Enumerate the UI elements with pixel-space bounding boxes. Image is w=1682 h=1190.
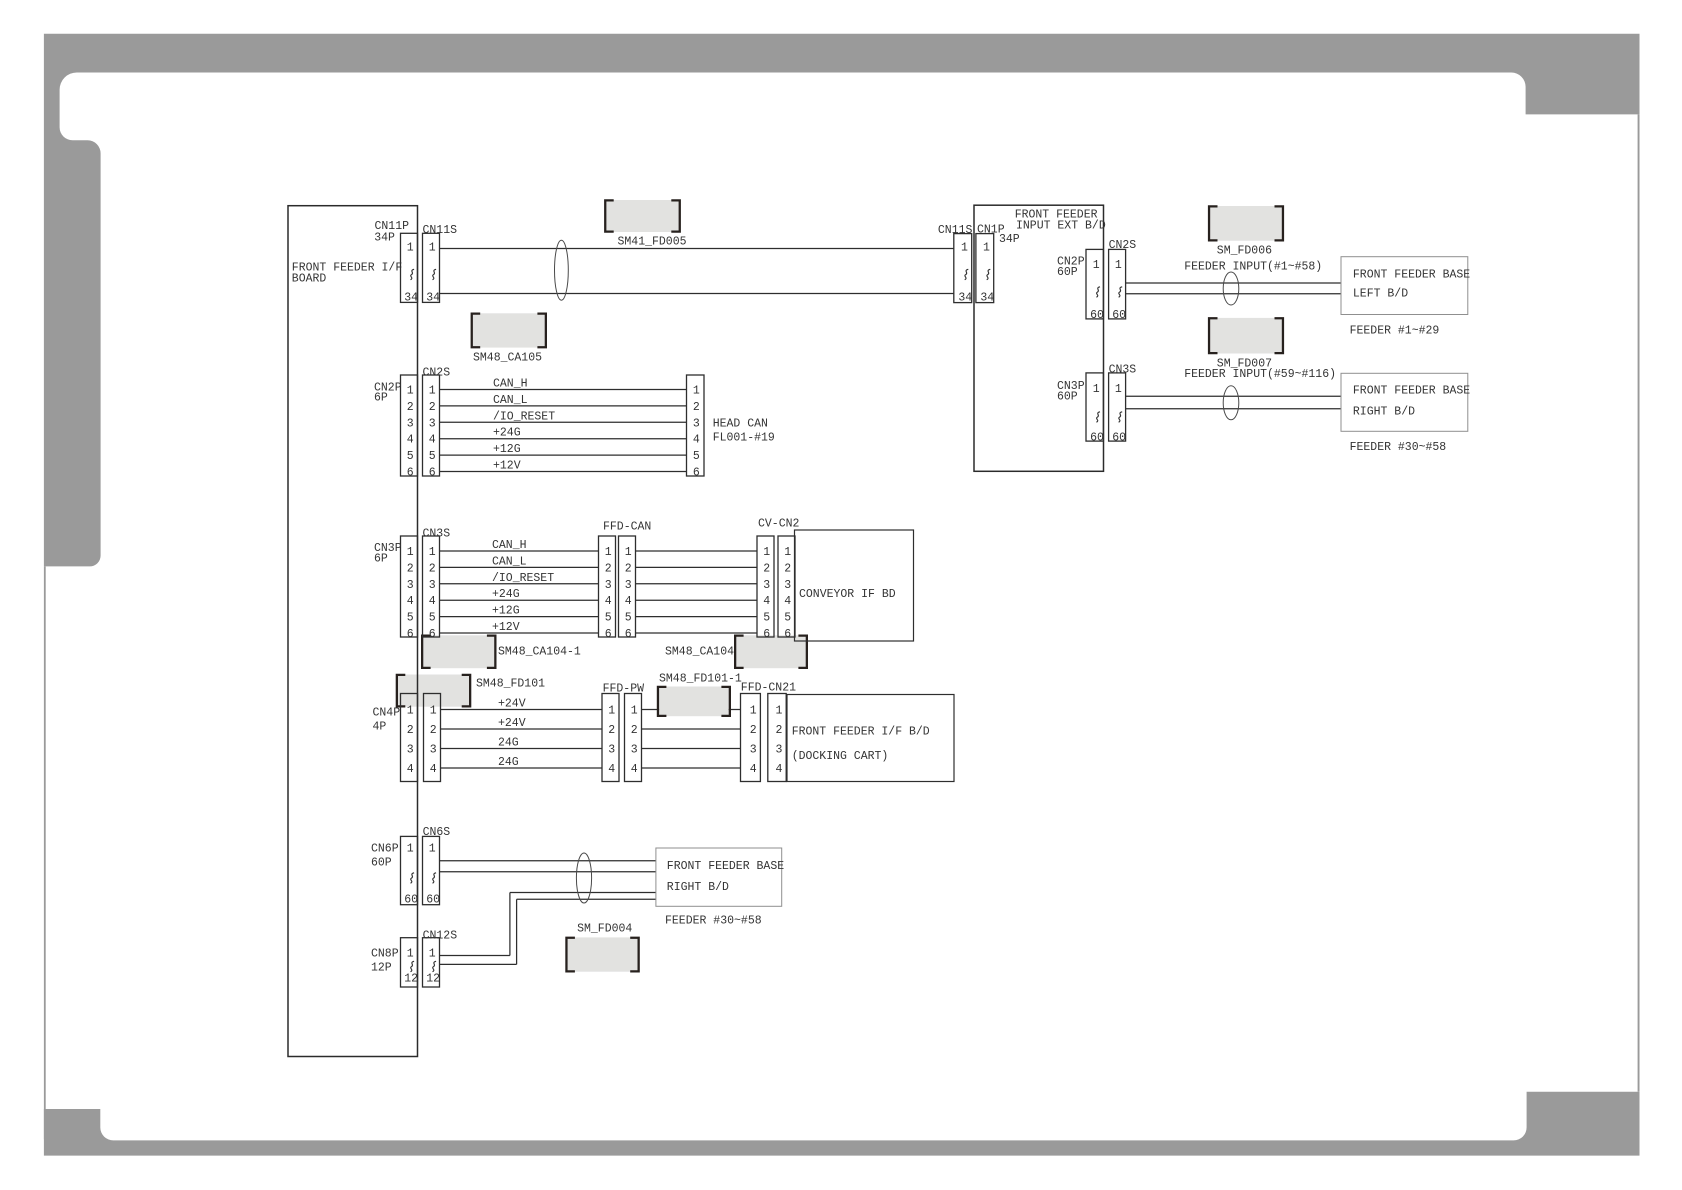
- svg-text:4P: 4P: [373, 721, 387, 734]
- svg-text:+24V: +24V: [498, 717, 526, 730]
- board CONVEYOR IF BD: [795, 530, 914, 641]
- svg-text:2: 2: [605, 562, 612, 575]
- svg-text:3: 3: [775, 744, 782, 757]
- connector CN2P box (right): [1086, 249, 1103, 319]
- svg-text:+24G: +24G: [493, 427, 521, 440]
- connector CN11S box (right): [954, 234, 972, 303]
- svg-text:FEEDER INPUT(#1~#58): FEEDER INPUT(#1~#58): [1184, 261, 1322, 274]
- label CN3P (left): [374, 542, 402, 555]
- svg-text:34: 34: [404, 291, 418, 304]
- cable bundle ellipse on feeder input #1-#58 bus: [1223, 272, 1239, 305]
- pin numbers CN3P/CN3S (1-6): [407, 546, 436, 641]
- label CN11P 34P: [374, 231, 395, 244]
- label docking cart board line2: [792, 750, 889, 763]
- svg-text:34: 34: [426, 291, 440, 304]
- svg-text:/IO_RESET: /IO_RESET: [493, 410, 555, 423]
- svg-text:5: 5: [407, 450, 414, 463]
- label FFD-PW: [603, 683, 645, 696]
- svg-text:3: 3: [407, 744, 414, 757]
- svg-text:CN12S: CN12S: [423, 930, 458, 943]
- redacted photo block SM48_FD101-1: [657, 686, 731, 717]
- cable bundle ellipse on CN11 bus: [555, 240, 569, 300]
- svg-text:1: 1: [983, 242, 990, 255]
- label CN6S: [423, 826, 451, 839]
- svg-text:CAN_L: CAN_L: [493, 394, 528, 407]
- connector CN2S box (right): [1109, 249, 1126, 319]
- svg-text:CN11S: CN11S: [423, 224, 458, 237]
- svg-text:HEAD CAN: HEAD CAN: [713, 418, 768, 431]
- svg-text:CAN_H: CAN_H: [493, 378, 528, 391]
- svg-text:34: 34: [958, 291, 972, 304]
- wire CN6S pin1 to FRONT FEEDER BASE RIGHT: [440, 860, 656, 862]
- svg-text:LEFT B/D: LEFT B/D: [1353, 288, 1408, 301]
- svg-text:CN2S: CN2S: [423, 367, 451, 380]
- pin numbers FFD-PW (1-4): [608, 705, 638, 777]
- svg-text:CAN_L: CAN_L: [492, 555, 527, 568]
- svg-text:60: 60: [1112, 309, 1126, 322]
- label CN12S: [423, 930, 458, 943]
- svg-text:12P: 12P: [371, 962, 392, 975]
- svg-text:60: 60: [426, 894, 440, 907]
- svg-text:CN11S: CN11S: [938, 224, 973, 237]
- svg-text:3: 3: [763, 579, 770, 592]
- redacted photo block SM48_CA104: [734, 635, 808, 670]
- label SM41_FD005: [618, 236, 687, 249]
- svg-text:60P: 60P: [371, 857, 392, 870]
- page frame: top gray band with left tab: [44, 34, 1640, 567]
- svg-text:4: 4: [775, 763, 782, 776]
- svg-text:FEEDER #1~#29: FEEDER #1~#29: [1350, 324, 1440, 337]
- board FRONT FEEDER BASE LEFT B/D: [1341, 257, 1468, 315]
- label SM48_FD101: [476, 678, 545, 691]
- cable bundle ellipse on feeder input #59-#116 bus: [1223, 386, 1239, 420]
- svg-text:4: 4: [430, 763, 437, 776]
- svg-text:2: 2: [407, 401, 414, 414]
- label CN3P (right): [1057, 380, 1085, 393]
- pin numbers CN8P/CN12S (1,~,12): [404, 948, 440, 986]
- net labels CN3 bus (CAN_H..+12V): [492, 539, 554, 634]
- svg-text:2: 2: [608, 724, 615, 737]
- svg-text:+12G: +12G: [492, 605, 520, 618]
- svg-text:SM48_CA104: SM48_CA104: [665, 645, 734, 658]
- svg-text:1: 1: [784, 546, 791, 559]
- label HEAD CAN: [713, 418, 768, 431]
- svg-text:CN3S: CN3S: [423, 528, 451, 541]
- net labels CN4 bus (+24V,+24V,24G,24G): [498, 698, 526, 770]
- svg-text:SM48_FD101: SM48_FD101: [476, 678, 545, 691]
- svg-text:2: 2: [750, 724, 757, 737]
- svg-text:CN6P: CN6P: [371, 843, 399, 856]
- wire bus CN2S pins1-6 to HEAD CAN: [440, 390, 687, 472]
- label FEEDER #30-#58 (right): [1350, 441, 1447, 454]
- svg-text:3: 3: [784, 579, 791, 592]
- svg-text:FEEDER #30~#58: FEEDER #30~#58: [665, 915, 762, 928]
- svg-text:CV-CN2: CV-CN2: [758, 518, 800, 531]
- svg-text:FL001-#19: FL001-#19: [713, 432, 775, 445]
- label CN6P: [371, 843, 399, 856]
- svg-text:1: 1: [407, 385, 414, 398]
- label SM_FD004: [577, 923, 632, 936]
- svg-text:60: 60: [404, 894, 418, 907]
- svg-text:FFD-PW: FFD-PW: [603, 683, 645, 696]
- label CN6P 60P: [371, 857, 392, 870]
- wire bus FFD-PW to FFD-CN21: [642, 710, 741, 769]
- svg-text:SM48_FD101-1: SM48_FD101-1: [659, 673, 742, 686]
- svg-text:1: 1: [407, 843, 414, 856]
- svg-text:2: 2: [631, 724, 638, 737]
- svg-text:CN4P: CN4P: [373, 707, 401, 720]
- connector CV-CN2 box pair: [757, 536, 795, 637]
- pin numbers CN2P/CN2S/HEAD CAN (1-6): [407, 385, 700, 480]
- svg-text:2: 2: [775, 724, 782, 737]
- label SM48_CA104: [665, 645, 734, 658]
- connector CN3S box (right): [1109, 373, 1126, 441]
- svg-text:1: 1: [961, 242, 968, 255]
- svg-text:3: 3: [430, 744, 437, 757]
- svg-text:5: 5: [693, 450, 700, 463]
- label feeder base left line2: [1353, 288, 1408, 301]
- svg-text:6P: 6P: [374, 553, 388, 566]
- wire CN12S pin12 to FRONT FEEDER BASE RIGHT: [440, 899, 656, 964]
- label board FRONT FEEDER INPUT EXT line1: [1015, 209, 1098, 222]
- pin numbers CN11P/CN11S (1,~,34): [404, 242, 440, 305]
- svg-text:60: 60: [1090, 309, 1104, 322]
- svg-text:6P: 6P: [374, 392, 388, 405]
- net labels CN2 bus (CAN_H..+12V): [493, 378, 555, 473]
- connector CN4P box: [401, 694, 418, 782]
- svg-text:3: 3: [605, 579, 612, 592]
- label CN11S (left): [423, 224, 458, 237]
- connector CN3S box (left): [423, 536, 440, 637]
- svg-text:4: 4: [407, 434, 414, 447]
- svg-text:1: 1: [407, 242, 414, 255]
- connector CN2P box (left): [401, 375, 418, 476]
- label CN3S (right): [1109, 364, 1137, 377]
- label CN4P 4P: [373, 721, 387, 734]
- board FRONT FEEDER INPUT EXT B/D: [974, 205, 1104, 471]
- label CN11P: [375, 220, 410, 233]
- label feeder base right line1: [1353, 385, 1470, 398]
- svg-text:1: 1: [625, 546, 632, 559]
- svg-text:CN8P: CN8P: [371, 948, 399, 961]
- svg-text:2: 2: [784, 562, 791, 575]
- svg-text:4: 4: [693, 434, 700, 447]
- cable bundle ellipse on CN6 bus: [576, 853, 591, 903]
- svg-text:(DOCKING CART): (DOCKING CART): [792, 750, 889, 763]
- svg-text:2: 2: [763, 562, 770, 575]
- pin numbers right CN11S/CN1P (1,~,34): [958, 242, 994, 305]
- svg-text:1: 1: [430, 705, 437, 718]
- board FRONT FEEDER BASE RIGHT B/D (bottom): [656, 848, 782, 906]
- label SM_FD006: [1217, 245, 1272, 258]
- label CN2P 6P: [374, 392, 388, 405]
- svg-text:1: 1: [1093, 383, 1100, 396]
- svg-text:4: 4: [763, 595, 770, 608]
- label CN1P 34P: [999, 233, 1020, 246]
- svg-text:1: 1: [429, 385, 436, 398]
- label CN2P (right): [1057, 255, 1085, 268]
- page frame: bottom gray band with corner blocks: [44, 1092, 1640, 1156]
- svg-text:34: 34: [980, 291, 994, 304]
- label CN8P 12P: [371, 962, 392, 975]
- label CN8P: [371, 948, 399, 961]
- board FRONT FEEDER BASE RIGHT B/D (right): [1341, 373, 1468, 431]
- connector CN11S box (left): [423, 233, 440, 302]
- svg-text:4: 4: [631, 763, 638, 776]
- svg-text:2: 2: [430, 724, 437, 737]
- svg-text:4: 4: [407, 595, 414, 608]
- label CN3S (left): [423, 528, 451, 541]
- svg-text:SM_FD004: SM_FD004: [577, 923, 632, 936]
- label FL001-#19: [713, 432, 775, 445]
- label FEEDER #30-#58 (bottom): [665, 915, 762, 928]
- wire bus CN4S pins1-4 to FFD-PW: [441, 710, 603, 769]
- svg-text:6: 6: [625, 628, 632, 641]
- svg-text:5: 5: [407, 612, 414, 625]
- redacted photo block SM48_CA105: [471, 313, 547, 349]
- svg-text:CN2S: CN2S: [1109, 239, 1137, 252]
- connector FFD-CN21 box pair: [741, 694, 787, 782]
- svg-text:SM48_CA105: SM48_CA105: [473, 352, 542, 365]
- svg-text:+12V: +12V: [492, 621, 520, 634]
- redacted photo block SM48_CA104-1: [421, 635, 497, 670]
- svg-text:BOARD: BOARD: [292, 273, 327, 286]
- wire right CN3S pin1 to FEEDER BASE RIGHT: [1126, 395, 1341, 397]
- label CN1P: [977, 224, 1005, 237]
- svg-text:INPUT EXT B/D: INPUT EXT B/D: [1016, 219, 1106, 232]
- label SM48_CA105: [473, 352, 542, 365]
- label feeder base left line1: [1353, 269, 1470, 282]
- wire right CN3S pin60 to FEEDER BASE RIGHT: [1126, 408, 1341, 410]
- svg-text:5: 5: [763, 612, 770, 625]
- page frame: right thin border line: [1638, 114, 1640, 1091]
- svg-text:SM_FD006: SM_FD006: [1217, 245, 1272, 258]
- connector HEAD CAN box: [687, 375, 705, 476]
- svg-text:1: 1: [631, 705, 638, 718]
- svg-text:4: 4: [605, 595, 612, 608]
- redacted photo block SM_FD004: [565, 937, 640, 973]
- connector CN2S box (left): [423, 375, 440, 476]
- svg-text:4: 4: [625, 595, 632, 608]
- svg-text:1: 1: [1115, 383, 1122, 396]
- svg-text:2: 2: [407, 724, 414, 737]
- svg-text:24G: 24G: [498, 756, 519, 769]
- svg-text:3: 3: [693, 417, 700, 430]
- svg-text:60: 60: [1112, 432, 1126, 445]
- label FEEDER INPUT #59-#116: [1184, 368, 1336, 381]
- svg-text:+24G: +24G: [492, 588, 520, 601]
- label docking cart board line1: [792, 726, 930, 739]
- board FRONT FEEDER I/F B/D (DOCKING CART): [787, 695, 954, 782]
- label SM48_FD101-1: [659, 673, 742, 686]
- redacted photo block SM_FD006: [1208, 205, 1284, 241]
- label CN2S (right): [1109, 239, 1137, 252]
- label FEEDER INPUT #1-#58: [1184, 261, 1322, 274]
- svg-text:+12G: +12G: [493, 443, 521, 456]
- svg-text:12: 12: [404, 973, 418, 986]
- svg-text:4: 4: [608, 763, 615, 776]
- label CONVEYOR IF BD: [799, 588, 896, 601]
- svg-text:5: 5: [429, 612, 436, 625]
- svg-text:6: 6: [693, 467, 700, 480]
- svg-text:60: 60: [1090, 432, 1104, 445]
- svg-text:FRONT FEEDER BASE: FRONT FEEDER BASE: [667, 860, 784, 873]
- svg-text:FEEDER #30~#58: FEEDER #30~#58: [1350, 441, 1447, 454]
- label SM48_CA104-1: [498, 645, 581, 658]
- svg-text:5: 5: [784, 612, 791, 625]
- svg-text:+12V: +12V: [493, 460, 521, 473]
- label FEEDER #1-#29: [1350, 324, 1440, 337]
- wire CN11S pin1 to right CN11S pin1: [440, 248, 954, 250]
- svg-text:3: 3: [429, 417, 436, 430]
- svg-text:1: 1: [1115, 259, 1122, 272]
- wire right CN2S pin60 to FEEDER BASE LEFT: [1126, 293, 1341, 295]
- svg-text:3: 3: [608, 744, 615, 757]
- page frame: left thin border line: [44, 566, 46, 1139]
- svg-text:1: 1: [608, 705, 615, 718]
- svg-text:3: 3: [407, 417, 414, 430]
- svg-text:6: 6: [784, 628, 791, 641]
- svg-text:+24V: +24V: [498, 698, 526, 711]
- svg-text:2: 2: [429, 401, 436, 414]
- connector CN3P box (left): [401, 536, 418, 637]
- svg-text:FFD-CAN: FFD-CAN: [603, 521, 651, 534]
- label board FRONT FEEDER INPUT EXT line2: [1016, 219, 1106, 232]
- svg-text:SM41_FD005: SM41_FD005: [618, 236, 687, 249]
- svg-text:CAN_H: CAN_H: [492, 539, 527, 552]
- label CN4P: [373, 707, 401, 720]
- svg-text:1: 1: [429, 843, 436, 856]
- svg-text:3: 3: [631, 744, 638, 757]
- pin numbers right CN3P/CN3S (1,~,60): [1090, 383, 1126, 445]
- wire bus FFD-CAN to CV-CN2: [636, 551, 758, 633]
- connector CN4S box: [424, 694, 441, 782]
- svg-text:2: 2: [429, 562, 436, 575]
- label CV-CN2: [758, 518, 800, 531]
- label CN3P 6P: [374, 553, 388, 566]
- wire bus CN3S pins1-6 to FFD-CAN: [440, 551, 599, 633]
- svg-text:1: 1: [429, 948, 436, 961]
- label feeder base right line2: [1353, 406, 1415, 419]
- svg-text:RIGHT B/D: RIGHT B/D: [1353, 406, 1415, 419]
- label CN2P 60P (right): [1057, 266, 1078, 279]
- svg-text:5: 5: [429, 450, 436, 463]
- label CN2P (left): [374, 382, 402, 395]
- svg-text:RIGHT B/D: RIGHT B/D: [667, 881, 729, 894]
- svg-text:FFD-CN21: FFD-CN21: [741, 682, 796, 695]
- svg-text:SM48_CA104-1: SM48_CA104-1: [498, 645, 581, 658]
- board FRONT FEEDER I/F BOARD: [288, 206, 418, 1057]
- svg-text:60P: 60P: [1057, 390, 1078, 403]
- svg-text:1: 1: [763, 546, 770, 559]
- svg-text:FRONT FEEDER I/F B/D: FRONT FEEDER I/F B/D: [792, 726, 930, 739]
- svg-text:2: 2: [407, 562, 414, 575]
- label FFD-CN21: [741, 682, 796, 695]
- svg-text:1: 1: [429, 242, 436, 255]
- label CN2S (left): [423, 367, 451, 380]
- svg-text:4: 4: [429, 434, 436, 447]
- svg-text:/IO_RESET: /IO_RESET: [492, 572, 554, 585]
- svg-text:6: 6: [605, 628, 612, 641]
- svg-text:4: 4: [784, 595, 791, 608]
- svg-text:CONVEYOR IF BD: CONVEYOR IF BD: [799, 588, 896, 601]
- connector FFD-PW box pair: [602, 694, 642, 782]
- svg-text:60P: 60P: [1057, 266, 1078, 279]
- connector CN8P box: [401, 938, 418, 987]
- redacted photo block SM48_FD101: [396, 674, 472, 708]
- svg-text:1: 1: [605, 546, 612, 559]
- redacted photo block SM_FD007: [1208, 317, 1284, 354]
- svg-text:3: 3: [625, 579, 632, 592]
- svg-text:3: 3: [407, 579, 414, 592]
- svg-text:3: 3: [750, 744, 757, 757]
- connector FFD-CAN box pair: [599, 536, 636, 637]
- label FFD-CAN: [603, 521, 651, 534]
- pin numbers CN4P/CN4S (1-4): [407, 705, 437, 777]
- svg-text:4: 4: [429, 595, 436, 608]
- svg-text:1: 1: [429, 546, 436, 559]
- pin numbers FFD-CAN (1-6): [605, 546, 632, 641]
- connector CN6S box: [423, 836, 440, 904]
- svg-text:4: 4: [407, 763, 414, 776]
- svg-text:3: 3: [429, 579, 436, 592]
- redacted photo block SM41_FD005: [604, 199, 681, 233]
- svg-text:6: 6: [429, 467, 436, 480]
- svg-text:6: 6: [429, 628, 436, 641]
- svg-text:1: 1: [407, 705, 414, 718]
- label CN11S (right): [938, 224, 973, 237]
- svg-text:2: 2: [625, 562, 632, 575]
- label CN3P 60P (right): [1057, 390, 1078, 403]
- connector CN11P box: [401, 233, 418, 302]
- svg-text:FRONT FEEDER BASE: FRONT FEEDER BASE: [1353, 385, 1470, 398]
- svg-text:1: 1: [407, 948, 414, 961]
- wire CN11S pin34 to right CN11S pin34: [440, 293, 954, 295]
- label board FRONT FEEDER I/F line2: [292, 273, 327, 286]
- connector CN12S box: [423, 938, 440, 987]
- svg-text:4: 4: [750, 763, 757, 776]
- pin numbers right CN2P/CN2S (1,~,60): [1090, 259, 1126, 322]
- pin numbers CV-CN2 (1-6): [763, 546, 791, 641]
- wire CN12S pin1 to FRONT FEEDER BASE RIGHT: [440, 893, 656, 956]
- label feeder base right(bottom) line2: [667, 881, 729, 894]
- connector CN3P box (right): [1086, 373, 1103, 441]
- svg-text:6: 6: [407, 628, 414, 641]
- svg-text:12: 12: [426, 973, 440, 986]
- svg-text:2: 2: [693, 401, 700, 414]
- svg-text:1: 1: [1093, 259, 1100, 272]
- wire right CN2S pin1 to FEEDER BASE LEFT: [1126, 282, 1341, 284]
- svg-text:24G: 24G: [498, 737, 519, 750]
- svg-text:FRONT FEEDER BASE: FRONT FEEDER BASE: [1353, 269, 1470, 282]
- pin numbers FFD-CN21 (1-4): [750, 705, 783, 777]
- svg-text:1: 1: [693, 385, 700, 398]
- svg-text:1: 1: [407, 546, 414, 559]
- svg-text:5: 5: [625, 612, 632, 625]
- label board FRONT FEEDER I/F line1: [292, 262, 403, 275]
- svg-text:CN3S: CN3S: [1109, 364, 1137, 377]
- connector CN1P box: [976, 234, 994, 303]
- svg-text:5: 5: [605, 612, 612, 625]
- label feeder base right(bottom) line1: [667, 860, 784, 873]
- label SM_FD007: [1217, 357, 1272, 370]
- svg-text:FEEDER INPUT(#59~#116): FEEDER INPUT(#59~#116): [1184, 368, 1336, 381]
- svg-text:6: 6: [763, 628, 770, 641]
- svg-text:1: 1: [750, 705, 757, 718]
- svg-text:CN6S: CN6S: [423, 826, 451, 839]
- svg-text:6: 6: [407, 467, 414, 480]
- svg-text:34P: 34P: [374, 231, 395, 244]
